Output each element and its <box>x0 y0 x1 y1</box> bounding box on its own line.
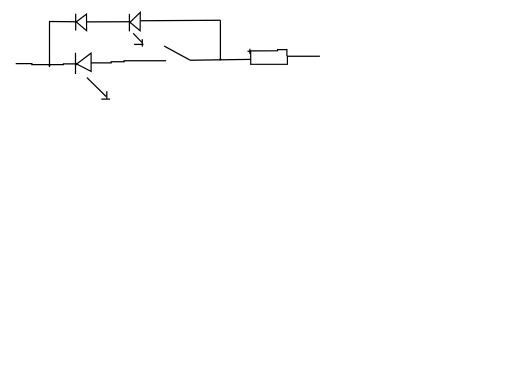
node junction D3 anode and input wire <box>75 63 78 66</box>
LED D3 triangle <box>77 53 91 71</box>
wire top right segment <box>141 19 221 21</box>
switch S1 blade <box>164 46 190 60</box>
diode D1 triangle <box>76 14 86 31</box>
resistor R1 body <box>251 50 288 65</box>
node junction D1 anode <box>75 21 77 23</box>
wire between D1 and D2 <box>87 21 130 23</box>
wire left vertical branch <box>49 22 51 68</box>
LED D3 cathode bar <box>75 53 77 74</box>
resistor R1 start tick <box>248 49 258 54</box>
wire switch to resistor <box>190 58 251 61</box>
LED D2 triangle <box>130 12 140 30</box>
node junction right vertical and wire <box>219 58 221 60</box>
wire top left segment <box>49 21 76 23</box>
LED D3 emission arrow <box>87 78 110 100</box>
LED D2 cathode bar <box>128 14 130 32</box>
LED D2 emission arrow <box>133 33 143 46</box>
wire output lead <box>287 55 320 57</box>
wire D3 to switch <box>91 61 166 63</box>
node junction D2 anode <box>129 21 131 23</box>
diode D1 cathode bar <box>75 14 77 31</box>
wire right vertical branch <box>219 20 221 60</box>
node junction left vertical and input wire <box>48 64 50 66</box>
wire left input lead <box>16 64 76 65</box>
